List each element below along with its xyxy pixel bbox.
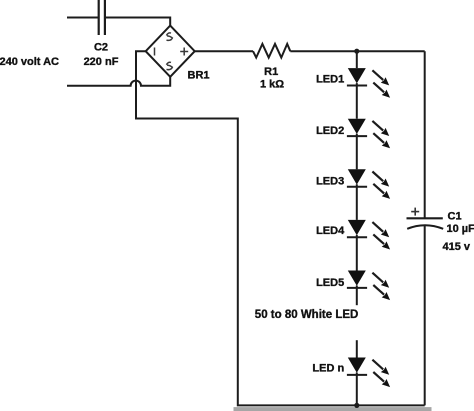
wire: AC neutral to BR1 AC input (bottom), hops over minus wire — [67, 77, 170, 86]
svg-text:LED1: LED1 — [316, 73, 344, 85]
wire: LED2 cathode to LED3 anode — [356, 134, 358, 170]
resistor R1 — [253, 44, 290, 58]
svg-text:LED5: LED5 — [316, 277, 344, 289]
capacitor C2 — [99, 0, 105, 35]
wire: AC line top-left stub — [67, 17, 99, 19]
wire: LED n anode stub — [356, 340, 358, 357]
svg-text:220 nF: 220 nF — [84, 56, 119, 68]
polarity mark + of C1 — [411, 208, 419, 216]
svg-text:415 v: 415 v — [443, 241, 471, 253]
svg-text:C1: C1 — [448, 210, 462, 222]
junction: + rail / LED string tap — [354, 49, 359, 54]
wire: C2 to BR1 AC input (top) — [105, 18, 170, 26]
wire: node to LED1 anode — [356, 51, 358, 68]
svg-text:BR1: BR1 — [188, 70, 210, 82]
bridge rectifier BR1 — [146, 26, 195, 77]
wire: LED3 cathode to LED4 anode — [356, 184, 358, 220]
BR1 pin − (left DC) — [154, 48, 156, 56]
LED LED2 — [347, 119, 390, 149]
wire: LED4 cathode to LED5 anode — [356, 235, 358, 271]
svg-text:10 µF: 10 µF — [447, 223, 474, 235]
svg-text:1 kΩ: 1 kΩ — [260, 79, 284, 91]
svg-text:C2: C2 — [94, 42, 108, 54]
svg-text:50 to 80 White LED: 50 to 80 White LED — [255, 309, 359, 321]
junction: LED string to − rail — [354, 403, 359, 408]
wire: LED1 cathode to LED2 anode — [356, 83, 358, 119]
wire: C1 branch upper — [424, 51, 426, 218]
LED LED1 — [347, 68, 390, 98]
svg-text:R1: R1 — [264, 66, 278, 78]
wire: C1 to bottom rail — [424, 226, 426, 406]
svg-text:LED n: LED n — [312, 363, 344, 375]
capacitor C1 — [407, 218, 444, 229]
LED LED5 — [347, 271, 390, 301]
wire: R1 to LED string node — [290, 50, 357, 52]
BR1 pin ~ (top AC) — [166, 33, 172, 40]
BR1 pin ~ (bottom AC) — [166, 62, 172, 69]
LED LED3 — [347, 169, 390, 199]
wire: LED n cathode to bottom rail — [356, 373, 358, 406]
LED LEDn — [347, 358, 390, 388]
wire: LED5 cathode stub (string continues) — [356, 286, 358, 306]
svg-text:LED3: LED3 — [316, 175, 344, 187]
LED LED4 — [347, 220, 390, 250]
BR1 pin + (right DC) — [180, 48, 188, 56]
wire: BR1 − output to bottom rail — [136, 51, 425, 405]
wire: BR1 + output to R1 — [195, 50, 253, 52]
svg-text:240 volt AC: 240 volt AC — [0, 56, 59, 68]
svg-text:LED2: LED2 — [316, 125, 344, 137]
svg-text:LED4: LED4 — [316, 225, 345, 237]
wire: node to C1 branch corner — [357, 50, 425, 52]
